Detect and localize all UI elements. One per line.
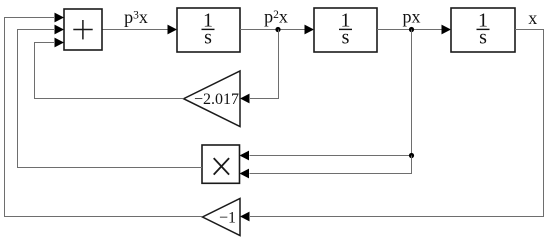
arrowhead into integrator 3 [442, 25, 452, 35]
svg-text:−2.017: −2.017 [194, 91, 239, 108]
arrowhead into summer bottom input [55, 38, 65, 48]
integrator 1 [177, 8, 240, 52]
integrator 3 [451, 8, 515, 52]
arrowhead into summer top input [55, 13, 65, 23]
arrowhead into multiplier upper input [240, 151, 250, 161]
summing junction [64, 9, 102, 50]
arrowhead into integrator 2 [305, 25, 315, 35]
arrowhead into summer middle input [55, 25, 65, 35]
wire px node down with junction to multiplier inputs [250, 30, 412, 156]
svg-text:px: px [403, 7, 421, 27]
svg-text:s: s [204, 27, 212, 49]
wire p2x node down to -2.017 gain [250, 30, 279, 99]
arrowhead into -2.017 gain [240, 94, 250, 104]
wire integrator 3 output right and down to -1 gain [250, 30, 544, 217]
wire -1 gain output to summer top input [5, 18, 203, 217]
wire summer output to integrator 1 [102, 29, 168, 31]
gain -2.017 [184, 71, 240, 127]
svg-text:s: s [342, 27, 350, 49]
node p2x [275, 27, 280, 32]
gain -1 [203, 199, 241, 236]
arrowhead into -1 gain [240, 212, 250, 222]
arrowhead into multiplier lower input [240, 169, 250, 179]
node px [409, 27, 414, 32]
wire integrator 1 to integrator 2 [240, 29, 305, 31]
svg-text:x: x [528, 8, 537, 28]
wire multiplier output to summer middle input [18, 30, 203, 168]
integrator 2 [314, 8, 377, 52]
wire junction down to multiplier lower input [250, 156, 412, 174]
svg-text:−1: −1 [219, 209, 236, 226]
svg-text:s: s [479, 27, 487, 49]
wire integrator 2 to integrator 3 [377, 29, 442, 31]
arrowhead into integrator 1 [168, 25, 178, 35]
node junction on px feedback [409, 153, 414, 158]
multiplier [202, 145, 240, 183]
wire -2.017 gain output to summer bottom input [35, 43, 184, 99]
